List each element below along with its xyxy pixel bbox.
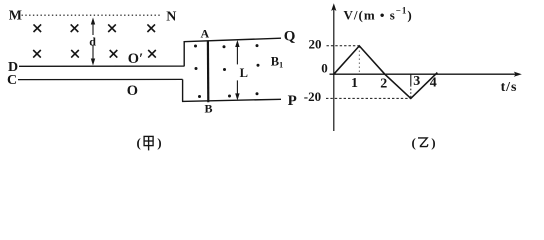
svg-text:L: L: [240, 66, 248, 80]
svg-text:O: O: [127, 83, 138, 99]
field-out-of-page dot 9: [256, 92, 259, 95]
graph x-axis: [330, 72, 522, 77]
dashed guide -20: [326, 97, 411, 99]
wire: left-bottom vertical connector: [182, 79, 184, 101]
conducting bar AB: [207, 41, 210, 102]
field-into-page symbol x1: [34, 24, 42, 32]
dashed boundary line MN: [22, 14, 162, 16]
wire: bottom edge to P: [182, 99, 281, 101]
svg-text:B: B: [205, 102, 213, 116]
dashed vertical at t=1: [358, 47, 360, 74]
svg-text:4: 4: [430, 76, 437, 91]
field-out-of-page dot 3: [256, 44, 259, 47]
svg-text:-20: -20: [304, 89, 321, 104]
svg-text:(: (: [412, 135, 416, 150]
field-into-page symbol x4: [147, 24, 155, 32]
caption (jia): [137, 135, 162, 150]
dimension arrow L: [235, 40, 248, 100]
dimension arrow d: [88, 18, 99, 66]
field-into-page symbol x6: [71, 50, 79, 58]
dashed guide +20: [327, 45, 360, 47]
field-out-of-page dot 4: [195, 67, 198, 70]
svg-text:(: (: [137, 135, 141, 150]
field-out-of-page dot 5: [223, 68, 226, 71]
field-into-page symbol x3: [108, 24, 116, 32]
svg-text:20: 20: [309, 36, 322, 51]
vertical guide at t=3: [410, 74, 412, 85]
svg-text:3: 3: [413, 74, 420, 89]
svg-text:2: 2: [380, 76, 387, 91]
field-out-of-page dot 2: [223, 45, 226, 48]
velocity-time curve: [334, 46, 438, 99]
svg-text:t/s: t/s: [501, 80, 518, 95]
rail C wire: [18, 78, 183, 80]
rail D wire: [19, 65, 184, 67]
field-into-page symbol x8: [148, 50, 156, 58]
field-into-page symbol x7: [110, 50, 118, 58]
svg-text:): ): [431, 135, 435, 150]
field-out-of-page dot 1: [194, 45, 197, 48]
wire: top edge to Q: [184, 38, 282, 42]
svg-text:): ): [157, 135, 161, 150]
svg-text:0: 0: [321, 61, 328, 76]
svg-text:1: 1: [351, 76, 358, 91]
svg-text:P: P: [288, 93, 297, 109]
svg-text:d: d: [89, 34, 96, 48]
field-into-page symbol x5: [33, 50, 41, 58]
svg-text:A: A: [201, 27, 210, 41]
field-out-of-page dot 7: [198, 95, 201, 98]
svg-text:M: M: [9, 9, 22, 24]
svg-text:N: N: [166, 9, 176, 24]
field-out-of-page dot 6: [257, 64, 260, 67]
svg-text:O′: O′: [128, 51, 143, 67]
field-out-of-page dot 8: [228, 95, 231, 98]
wire: left-top vertical connector: [183, 42, 185, 67]
graph y-axis: [331, 3, 336, 131]
caption (yi): [412, 135, 436, 150]
svg-text:Q: Q: [284, 28, 296, 44]
field-into-page symbol x2: [71, 24, 79, 32]
svg-text:C: C: [7, 73, 17, 88]
